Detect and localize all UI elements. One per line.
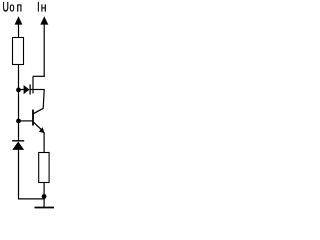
transistor VT1 base bar xyxy=(32,110,34,126)
resistor R1 xyxy=(13,38,24,65)
wire collector riser xyxy=(43,90,44,109)
wire base lead xyxy=(19,120,33,122)
svg-text:о: о xyxy=(10,1,15,15)
svg-text:U: U xyxy=(3,1,9,15)
label Iн (load current net) xyxy=(37,1,46,16)
svg-text:п: п xyxy=(17,1,23,15)
resistor R2 xyxy=(39,153,49,183)
diode VD1 (horizontal, anode left) xyxy=(24,84,31,94)
junction dot ground node xyxy=(42,194,47,199)
wire node A to diode VD1 xyxy=(19,89,25,91)
ground bar xyxy=(35,207,55,209)
wire rail jog vertical to node on collector wire xyxy=(32,76,34,93)
junction dot base node xyxy=(16,119,21,124)
wire VD1 cathode to collector corner xyxy=(30,89,44,91)
transistor VT1 collector lead xyxy=(34,108,44,113)
transistor VT1 emitter lead with arrow xyxy=(34,122,45,133)
svg-text:I: I xyxy=(37,1,40,15)
svg-text:н: н xyxy=(41,1,47,15)
wire R2 bottom to ground xyxy=(43,183,45,208)
wire left rail below R1 xyxy=(18,65,20,142)
arrow terminal Iн (up arrow) xyxy=(40,16,48,77)
node A junction dot xyxy=(16,88,21,93)
wire left rail to bottom corner and bottom wire xyxy=(19,150,45,199)
arrow terminal Uoп (up arrow) xyxy=(15,16,23,38)
wire emitter to R2 xyxy=(43,132,45,153)
wire rail jog horizontal xyxy=(33,75,45,77)
label Uoп (reference voltage net) xyxy=(3,1,23,16)
diode VD2 (vertical, cathode up) xyxy=(12,141,24,150)
